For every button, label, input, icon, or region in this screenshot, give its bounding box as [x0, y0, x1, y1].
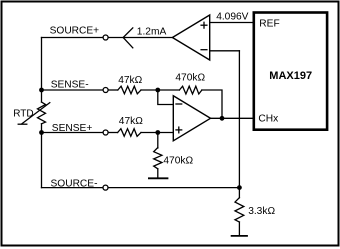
svg-text:470kΩ: 470kΩ — [163, 156, 193, 167]
svg-text:1.2mA: 1.2mA — [137, 27, 167, 38]
svg-text:470kΩ: 470kΩ — [175, 73, 205, 84]
svg-text:SOURCE+: SOURCE+ — [50, 26, 100, 37]
svg-text:CHx: CHx — [258, 114, 278, 125]
svg-text:REF: REF — [259, 19, 279, 30]
svg-text:47kΩ: 47kΩ — [119, 116, 143, 127]
svg-text:SOURCE-: SOURCE- — [51, 178, 98, 189]
svg-text:3.3kΩ: 3.3kΩ — [248, 206, 275, 217]
svg-text:SENSE-: SENSE- — [51, 80, 89, 91]
svg-text:4.096V: 4.096V — [216, 12, 248, 23]
svg-text:RTD: RTD — [13, 108, 33, 119]
svg-text:SENSE+: SENSE+ — [52, 123, 93, 134]
svg-text:MAX197: MAX197 — [269, 70, 312, 82]
svg-text:47kΩ: 47kΩ — [118, 75, 142, 86]
